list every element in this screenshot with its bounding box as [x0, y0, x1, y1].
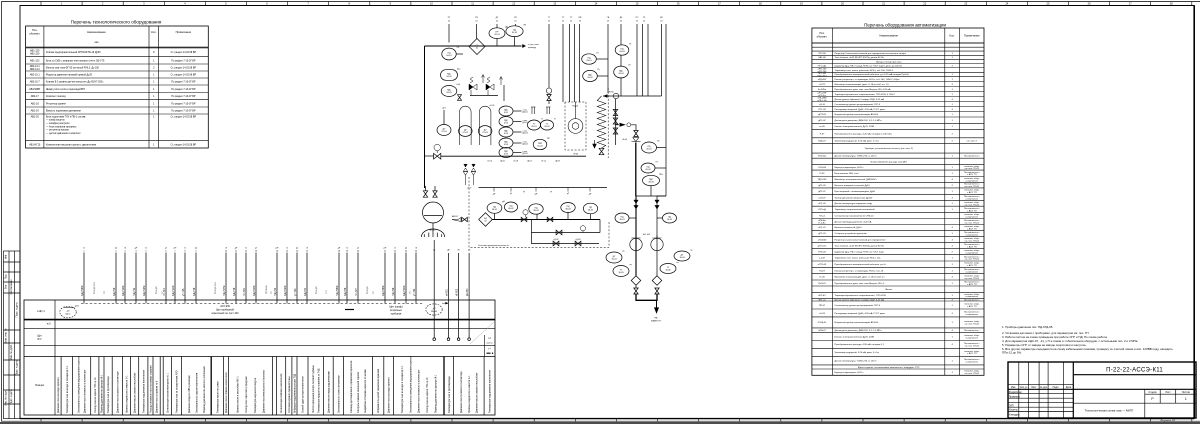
svg-text:Датчик уровня буйковый, Сапфир: Датчик уровня буйковый, Сапфир-22ДУ, 4-2… [835, 98, 885, 101]
svg-text:4-20 м: 4-20 м [487, 342, 494, 344]
gauge at x549 [546, 88, 551, 93]
svg-text:Фильтр газа типа ФГ-50 сетчаты: Фильтр газа типа ФГ-50 сетчатый РУ6,3, Д… [46, 67, 100, 70]
svg-text:дП1-03: дП1-03 [818, 233, 826, 235]
svg-text:АВ2-15.1: АВ2-15.1 [30, 74, 41, 77]
svg-text:Давление газа в обвязке нагнет: Давление газа в обвязке нагнетателя [226, 372, 228, 413]
svg-text:уГ-731: уГ-731 [413, 288, 416, 296]
svg-text:АД-722М: АД-722М [284, 286, 287, 296]
svg-text:т3 1,2: т3 1,2 [541, 161, 546, 163]
svg-text:1. Приборы давления поз. ПД-07: 1. Приборы давления поз. ПД-07Д-05. [1002, 325, 1053, 329]
valve dos V6 [547, 217, 553, 221]
svg-text:04-03: 04-03 [446, 92, 452, 94]
svg-text:Инв. № дубл.: Инв. № дубл. [10, 344, 13, 360]
wire stack tap1 [657, 147, 667, 149]
svg-text:Резерв поз.: Резерв поз. [215, 281, 217, 294]
svg-text:02-01: 02-01 [494, 34, 500, 36]
svg-text:в комплекте: в комплекте [966, 217, 979, 219]
svg-text:Дата: Дата [1066, 386, 1072, 389]
wire dos right drop [599, 220, 601, 233]
wire branchR [656, 196, 658, 276]
instrument PI-141 [663, 213, 677, 223]
svg-text:Давление газа на входе агрегат: Давление газа на входе агрегата [389, 377, 391, 413]
svg-text:тД 05: тД 05 [500, 161, 505, 163]
svg-text:АД-716: АД-716 [193, 287, 196, 296]
svg-text:Команда дистанционного управле: Команда дистанционного управления агрега… [351, 360, 353, 413]
wire branch124b [631, 125, 636, 130]
svg-text:см. поз. ГП-02: см. поз. ГП-02 [965, 259, 980, 261]
svg-text:Уровень масла в маслобаке МБ-1: Уровень масла в маслобаке МБ-1 [237, 376, 239, 413]
svg-text:П-22-22-АССЭ-К11: П-22-22-АССЭ-К11 [1106, 368, 1163, 374]
wire PI-101 tap [456, 53, 463, 55]
band row labels [35, 311, 51, 387]
wire feed4 [515, 24, 517, 26]
svg-text:Датчик температуры, ТСМУ-274,: Датчик температуры, ТСМУ-274, 0..150 С [835, 360, 878, 362]
svg-text:02: 02 [484, 220, 486, 222]
valve V9 [613, 110, 617, 116]
svg-text:08-03: 08-03 [533, 210, 539, 212]
svg-text:Датчик-реле давления, ДЕМ-102,: Датчик-реле давления, ДЕМ-102, 0,1..1,0 … [835, 330, 883, 332]
svg-text:уК-801: уК-801 [447, 288, 449, 296]
instrument PT-153 [614, 66, 629, 78]
svg-text:ПД-711: ПД-711 [133, 287, 136, 296]
svg-text:Примечание: Примечание [964, 33, 980, 37]
svg-text:АВ1-19: АВ1-19 [31, 110, 40, 113]
svg-text:Регулятор 2-канальный газовый: Регулятор 2-канальный газовый для опреде… [835, 238, 887, 241]
svg-text:Температура газа за охладителе: Температура газа за охладителем АВО [176, 370, 179, 413]
svg-text:тД 09: тД 09 [555, 161, 560, 163]
wire branchL [635, 196, 637, 276]
wire left riser [424, 46, 426, 188]
svg-text:Поставляется с: Поставляется с [964, 330, 981, 332]
wire REC tap 0 [513, 110, 521, 112]
svg-text:Термометр сопротивления платин: Термометр сопротивления платиновый [835, 208, 876, 211]
svg-text:Подп.: Подп. [1053, 386, 1060, 389]
svg-text:с АСУ ТП: с АСУ ТП [967, 246, 977, 249]
signal line top tags [83, 248, 418, 253]
band center caption [212, 305, 240, 315]
svg-text:Термометр техн. показ. рт/вч-в: Термометр техн. показ. рт/вч-вый, НСХ-т,… [835, 69, 894, 72]
svg-text:аП1-Б03: аП1-Б03 [818, 239, 827, 241]
sheet shadow bottom [0, 422, 1200, 424]
svg-text:Давление газа за краном № 6: Давление газа за краном № 6 [156, 380, 159, 413]
instrument LI-142 [606, 252, 622, 263]
svg-text:Блок со СКВ с затвором типа га: Блок со СКВ с затвором типа газового сче… [46, 59, 105, 62]
svg-text:у к: у к [488, 348, 491, 350]
wire feed8 [574, 24, 576, 102]
svg-text:09-02: 09-02 [645, 169, 651, 171]
svg-text:р1: р1 [510, 193, 512, 195]
wire flare out [636, 294, 657, 300]
svg-text:Циркуляр Ду-у. ПВ-т выход 75/7: Циркуляр Ду-у. ПВ-т выход 75/70 газ; ГОС… [835, 65, 903, 67]
svg-text:с АСУ ТП: с АСУ ТП [967, 283, 977, 286]
svg-text:уГ-715: уГ-715 [182, 288, 185, 296]
wire feed11 [620, 24, 622, 45]
svg-text:Температура газа на входе в се: Температура газа на входе в сепаратор С-… [67, 365, 69, 413]
instrument TI-120 [527, 120, 540, 130]
svg-text:Ст. раздел 14.02.08 ВР: Ст. раздел 14.02.08 ВР [171, 143, 197, 146]
svg-text:ДК-04: ДК-04 [523, 144, 528, 146]
svg-text:АД-724: АД-724 [304, 287, 307, 296]
svg-text:тФ-01: тФ-01 [622, 138, 628, 141]
svg-text:тРУ05: тРУ05 [608, 92, 615, 94]
bottom band table grid [24, 300, 495, 415]
process diagram [421, 16, 693, 323]
instrument FI-130 [642, 142, 657, 153]
valve vessel inlet V2 [423, 191, 427, 197]
svg-text:ат-05: ат-05 [819, 126, 825, 128]
svg-text:см. поз. ГП-02: см. поз. ГП-02 [965, 278, 980, 280]
svg-text:Кол.уч: Кол.уч [1020, 386, 1028, 389]
svg-text:Установка дозирования реагента: Установка дозирования реагента [478, 245, 510, 247]
svg-text:Блоки измерения расхода газа (: Блоки измерения расхода газа (АГ) [871, 160, 907, 163]
instrument LT-112 [478, 126, 492, 137]
flare down arrow [655, 300, 659, 312]
svg-text:в комплекте: в комплекте [966, 296, 979, 298]
svg-text:Давление масла перед подшипник: Давление масла перед подшипниками [328, 370, 330, 413]
dosing feed arrow [452, 218, 461, 222]
wire flare main [635, 143, 637, 197]
valve dos V8 [553, 241, 559, 246]
svg-text:тЕ-802: тЕ-802 [457, 288, 459, 296]
wire dos return2 [532, 233, 600, 244]
flare header anchor [632, 138, 641, 142]
svg-text:По раздел 7-10-07 ВР: По раздел 7-10-07 ВР [171, 59, 196, 62]
svg-text:тД 07: тД 07 [527, 161, 532, 163]
instrument REC-12 [499, 106, 513, 116]
svg-text:АВ1-НГ10: АВ1-НГ10 [29, 143, 41, 146]
wire dos stem5 [590, 214, 592, 220]
svg-text:АВ2-17: АВ2-17 [452, 215, 458, 218]
svg-text:а1-03: а1-03 [819, 313, 825, 315]
svg-text:07-02: 07-02 [463, 132, 469, 134]
svg-text:Датчик уровня буйковый, Сапфир: Датчик уровня буйковый, Сапфир-22ДУ, 4-2… [835, 298, 885, 301]
svg-text:см. поз. ГП-02: см. поз. ГП-02 [965, 186, 980, 188]
svg-text:Клапан электромагнитный, Ду25,: Клапан электромагнитный, Ду25, 220В [835, 335, 875, 338]
svg-text:Поставляется с: Поставляется с [964, 299, 981, 301]
svg-text:№ док.: № док. [1040, 386, 1048, 389]
instrument PI-101 [442, 48, 456, 60]
svg-text:Вторичный прибор показывающий,: Вторичный прибор показывающий, А100-Н [835, 321, 879, 324]
svg-text:Комплект газоход: Комплект газоход [46, 95, 66, 98]
wire vent drop3 [503, 85, 505, 101]
wire feed6 [562, 24, 564, 102]
svg-text:Сигнализатор уровня ультразвук: Сигнализатор уровня ультразвуковой, СУР-… [835, 103, 881, 106]
svg-text:По раздел 7-10-07 ВР: По раздел 7-10-07 ВР [171, 102, 196, 105]
svg-text:ППа-12 до 5%.: ППа-12 до 5%. [1002, 351, 1022, 355]
thermowell ticks [531, 107, 551, 114]
svg-text:По раздел 7-10-07 ВР: По раздел 7-10-07 ВР [171, 88, 196, 91]
instrument TI-145 [660, 264, 676, 274]
svg-text:Вза: Вза [5, 284, 8, 289]
svg-text:Технологическая схема газа — А: Технологическая схема газа — АКПП [1085, 409, 1134, 413]
svg-text:АВ1-123: АВ1-123 [30, 59, 40, 62]
arch well W1 [460, 106, 472, 145]
svg-text:Температура подшипников нагнет: Температура подшипников нагнетателя [143, 369, 145, 413]
HX inlet down arrow [593, 140, 597, 148]
svg-text:тК-01: тК-01 [490, 105, 496, 107]
svg-text:П-1-Ба: П-1-Ба [819, 223, 827, 225]
valve HX drain V8 [599, 148, 604, 154]
block valves pair [463, 168, 467, 185]
svg-text:аРД-08У: аРД-08У [818, 79, 827, 81]
svg-text:агрегатный см. лист 100: агрегатный см. лист 100 [212, 312, 240, 315]
svg-text:Клапан-регулятор с эл.приводом: Клапан-регулятор с эл.приводом, НСХ-т, t… [835, 78, 901, 81]
svg-text:Подп. и дата: Подп. и дата [15, 360, 18, 375]
zone numbers top [61, 1, 1173, 5]
dosing pump P1 [523, 210, 528, 217]
svg-text:Резерв: Резерв [367, 286, 369, 294]
wire dos stem1 [494, 214, 496, 220]
svg-text:Согласовано: Согласовано [10, 279, 13, 295]
svg-text:04-01: 04-01 [446, 55, 452, 57]
instrument signal lines into band [84, 253, 416, 304]
svg-text:По раздел 7-10-07 ВР: По раздел 7-10-07 ВР [171, 81, 196, 84]
svg-text:Давление газа топливного в кол: Давление газа топливного в коллекторе [419, 369, 421, 413]
valve V12 [634, 131, 638, 137]
svg-text:Резерв: Резерв [156, 286, 158, 294]
wire sv1 [635, 285, 637, 288]
svg-text:ПД1-07: ПД1-07 [818, 140, 826, 142]
wire vessel feed a [425, 186, 427, 191]
instrument LT-110 [437, 125, 451, 136]
svg-text:Наименование: Наименование [879, 33, 898, 37]
svg-text:ДК-02: ДК-02 [523, 122, 528, 124]
wire v16 stem [548, 101, 550, 105]
svg-text:Перечень технологического об: Перечень технологического оборудования [71, 20, 162, 25]
svg-text:Перечень оборудования автома: Перечень оборудования автоматизации [864, 23, 946, 28]
svg-text:Поз.: Поз. [819, 31, 825, 35]
svg-text:Стадия: Стадия [1148, 391, 1157, 394]
band rotated position texts ff [58, 355, 492, 413]
wire branch124 [616, 124, 620, 126]
svg-text:Температура подшипников нагнет: Температура подшипников нагнетателя [490, 369, 492, 413]
vessel drain signal lines [433, 253, 471, 341]
vent arrow 2 [500, 77, 503, 86]
instrument TI-121 [540, 120, 553, 130]
instrument FT-102 [489, 28, 505, 39]
svg-text:Давление газа на входе агрегат: Давление газа на входе агрегата [58, 377, 60, 413]
svg-text:Температура газа в трубопровод: Температура газа в трубопроводе [449, 375, 451, 413]
svg-text:тП1-04б: тП1-04б [818, 167, 827, 169]
wire feed10 [607, 24, 609, 93]
svg-text:Затвор дисковый поворотный, Ду: Затвор дисковый поворотный, Ду100 [835, 196, 873, 199]
svg-text:ДК-01: ДК-01 [523, 112, 528, 114]
svg-text:Взам. инв. №: Взам. инв. № [5, 328, 8, 344]
title block captions [1009, 386, 1191, 423]
svg-text:Преобразователь расхода, 4-20: Преобразователь расхода, 4-20 мА, наладк… [835, 343, 886, 346]
svg-text:Давление газа топливного в кол: Давление газа топливного в коллекторе [85, 369, 87, 413]
wire vcol [615, 99, 617, 145]
svg-text:тС-727: тС-727 [355, 288, 358, 296]
check valves L [634, 200, 638, 209]
svg-text:02-02: 02-02 [512, 32, 518, 34]
wire pt tap3 [620, 55, 622, 66]
left margin rotated captions [5, 254, 19, 406]
wire FE stem2 [514, 37, 516, 46]
instrument PT-150 [582, 54, 597, 64]
valve vessel inlet V3 [433, 191, 437, 197]
svg-text:07-03: 07-03 [483, 132, 489, 134]
wire dosing line [492, 219, 600, 221]
svg-text:тД-03: тД-03 [576, 239, 581, 241]
wire skid top rail [479, 187, 608, 189]
instrument LT-111 [459, 126, 473, 137]
instrument dos PI-5 [583, 203, 597, 214]
valve dos V9 [575, 241, 581, 246]
svg-text:тН1 тН2: тН1 тН2 [643, 234, 651, 236]
instrument dos PI-4 [561, 203, 575, 213]
svg-text:Под: Под [5, 274, 8, 279]
svg-text:Давление масла смазки в маслоб: Давление масла смазки в маслобаке [135, 372, 137, 413]
wire line156 [441, 155, 586, 157]
svg-text:Датчик-реле давления, ДЕМ-102,: Датчик-реле давления, ДЕМ-102, 0,1..1,0 … [835, 120, 883, 122]
svg-text:обознач.: обознач. [817, 35, 828, 39]
svg-text:с АСУ ТП: с АСУ ТП [967, 264, 977, 267]
svg-text:Приборы, установленные по мест: Приборы, установленные по месту (см. лис… [865, 148, 913, 150]
svg-text:Преобразователь давл. изм. тип: Преобразователь давл. изм. типа Метран-1… [835, 88, 892, 91]
svg-text:09-01: 09-01 [646, 149, 652, 151]
automation table header text [817, 31, 980, 39]
svg-text:Температура продуктов сгорания: Температура продуктов сгорания за ТНД [318, 368, 320, 413]
band dashed local-instruments line [81, 302, 424, 304]
svg-text:АВ1-20: АВ1-20 [31, 115, 40, 118]
equipment list rows text [29, 49, 196, 146]
wire feed7 [569, 24, 571, 102]
svg-text:а-1аП: а-1аП [819, 258, 825, 260]
svg-text:Вторичный прибор показывающий,: Вторичный прибор показывающий, А100-Н [835, 113, 879, 116]
svg-text:10-06: 10-06 [665, 270, 671, 272]
svg-text:т1 0,4: т1 0,4 [487, 161, 492, 163]
instrument PIR-122 [533, 139, 547, 149]
svg-text:Ст. раздел 14.02.08 ВР: Ст. раздел 14.02.08 ВР [171, 74, 197, 77]
svg-text:Позиция: Позиция [35, 385, 45, 387]
svg-text:Циркуляр Ду-у. ПВ-т выход 75/7: Циркуляр Ду-у. ПВ-т выход 75/70 газ; ГОС… [835, 251, 885, 253]
mixer mixer M1 [469, 39, 485, 55]
wire REC tap 3 [513, 142, 521, 144]
svg-text:Регулятор 2-канальный газовый: Регулятор 2-канальный газовый для опреде… [835, 52, 907, 55]
svg-text:АД-730М: АД-730М [403, 286, 406, 296]
svg-text:ДК-05: ДК-05 [523, 153, 528, 155]
svg-text:в комплекте: в комплекте [966, 362, 979, 364]
svg-text:Пт: Пт [629, 65, 631, 67]
wire dos stem3 [536, 214, 538, 220]
svg-text:Манометр электроконтактный, ДМ: Манометр электроконтактный, ДМ2005Сг [835, 178, 877, 181]
svg-text:АВ2-14.2: АВ2-14.2 [30, 68, 41, 71]
svg-text:дП1-03: дП1-03 [818, 185, 826, 187]
svg-text:Щит приборный: Щит приборный [216, 309, 234, 312]
wire junction line96 [603, 95, 662, 97]
valve V16 [547, 95, 551, 101]
valve drain V1 [458, 95, 462, 101]
svg-text:ПД-721: ПД-721 [274, 287, 277, 296]
svg-text:ГИП: ГИП [1009, 404, 1014, 407]
svg-text:ТДП-03Р: ТДП-03Р [818, 179, 827, 181]
svg-text:АД-718: АД-718 [233, 287, 236, 296]
svg-text:см. поз. ГП-02: см. поз. ГП-02 [965, 323, 980, 325]
svg-text:Загазованность помещения редуц: Загазованность помещения редуцирования а… [79, 355, 81, 413]
svg-text:Утвердил: Утвердил [1009, 413, 1020, 416]
instrument REC-16 [499, 148, 513, 158]
svg-text:Кол.: Кол. [151, 30, 157, 34]
svg-text:Уровнемер радарный, 4-20 мА, д: Уровнемер радарный, 4-20 мА, диап. 0..4 … [835, 139, 880, 142]
notes block [1002, 325, 1173, 355]
svg-text:Термопреобразователь сопротивл: Термопреобразователь сопротивления, ТСП-… [835, 94, 896, 96]
svg-text:Состояние кранов охранной зоны: Состояние кранов охранной зоны [288, 376, 291, 413]
instrument REC-14 [499, 127, 513, 137]
svg-text:10-05: 10-05 [618, 272, 624, 274]
svg-text:т1-05: т1-05 [819, 277, 825, 279]
signal line rotated labels [81, 286, 416, 296]
svg-text:к сущ. газо-: к сущ. газо- [528, 44, 539, 46]
check valves pair [464, 164, 467, 167]
svg-text:05-02: 05-02 [544, 126, 550, 128]
svg-text:см. лист 2: см. лист 2 [967, 140, 978, 142]
band right caption [389, 306, 402, 316]
svg-text:см. поз. ГП-02: см. поз. ГП-02 [965, 168, 980, 170]
svg-text:Резерв поз.: Резерв поз. [94, 281, 96, 294]
svg-text:Расход газа на агрегат ГПА-Ц-1: Расход газа на агрегат ГПА-Ц-16 [426, 377, 429, 413]
svg-text:Температура масла на сливе: Температура масла на сливе [217, 381, 219, 413]
svg-text:АД-712М: АД-712М [143, 286, 146, 296]
svg-text:Перепад давления газ-масло в у: Перепад давления газ-масло в уплотнении [204, 365, 206, 413]
svg-text:вторичных: вторичных [390, 309, 403, 312]
title block grid [1008, 362, 1196, 418]
svg-text:Сигнализатор уровня ультразвук: Сигнализатор уровня ультразвуковой, СУР-… [835, 304, 881, 307]
svg-text:в комплекте: в комплекте [966, 314, 979, 316]
instrument PT-151 [583, 70, 598, 81]
wire REC tap 2 [513, 131, 521, 133]
instrument FI-132 [643, 175, 660, 185]
svg-text:ПП1-03: ПП1-03 [818, 251, 826, 253]
svg-text:см. поз. ГП-02: см. поз. ГП-02 [965, 204, 980, 206]
svg-text:08-02: 08-02 [508, 208, 514, 210]
mixer dosing filter [479, 213, 493, 227]
svg-text:Разработал: Разработал [1009, 391, 1023, 394]
svg-text:— датчик давления и комплект: — датчик давления и комплект [46, 132, 82, 135]
svg-text:аПБ-07: аПБ-07 [818, 330, 826, 332]
mixer strainer S2 [652, 276, 662, 286]
svg-text:АВ3-16.7: АВ3-16.7 [30, 81, 41, 84]
band left oval station [60, 306, 76, 318]
valve dos V7 [556, 230, 562, 235]
svg-text:АВ1-220: АВ1-220 [30, 52, 40, 55]
valve CV1 body [434, 153, 441, 159]
instrument LI-143 [674, 251, 690, 261]
arrow to existing pipeline [521, 44, 526, 47]
svg-text:Клапан Б 1-уровня датчик контр: Клапан Б 1-уровня датчик контроля «Ду 65… [46, 81, 104, 84]
svg-text:П7-а1: П7-а1 [819, 215, 826, 217]
svg-text:Пт: Пт [629, 43, 631, 45]
svg-text:Пт: Пт [598, 69, 600, 71]
svg-text:П1-07: П1-07 [819, 270, 826, 272]
svg-text:Преобразователь расхода, 4-20: Преобразователь расхода, 4-20 мА, наладк… [835, 132, 892, 135]
instrument REC-15 [499, 138, 513, 148]
svg-text:Ст. раздел 14.02.08 ВР: Ст. раздел 14.02.08 ВР [171, 115, 197, 118]
svg-text:IP-У: IP-У [37, 339, 42, 341]
svg-text:05-01: 05-01 [531, 126, 537, 128]
svg-text:Температура газа в трубопровод: Температура газа в трубопроводе [108, 375, 110, 413]
circulation pump CP1 [568, 102, 583, 133]
svg-text:Вентиль игольчатый, Ду10: Вентиль игольчатый, Ду10 [835, 226, 863, 229]
wire stack tap3 [650, 186, 652, 196]
svg-text:03-01: 03-01 [586, 60, 592, 62]
wire inject line [425, 155, 434, 157]
svg-text:р2: р2 [567, 193, 569, 195]
svg-text:АД-714М: АД-714М [172, 286, 175, 296]
svg-text:Листов: Листов [1182, 391, 1190, 394]
mixer strainer S1 [631, 276, 641, 286]
svg-text:Преобразователь измерительный: Преобразователь измерительный избыточн. … [835, 73, 910, 76]
